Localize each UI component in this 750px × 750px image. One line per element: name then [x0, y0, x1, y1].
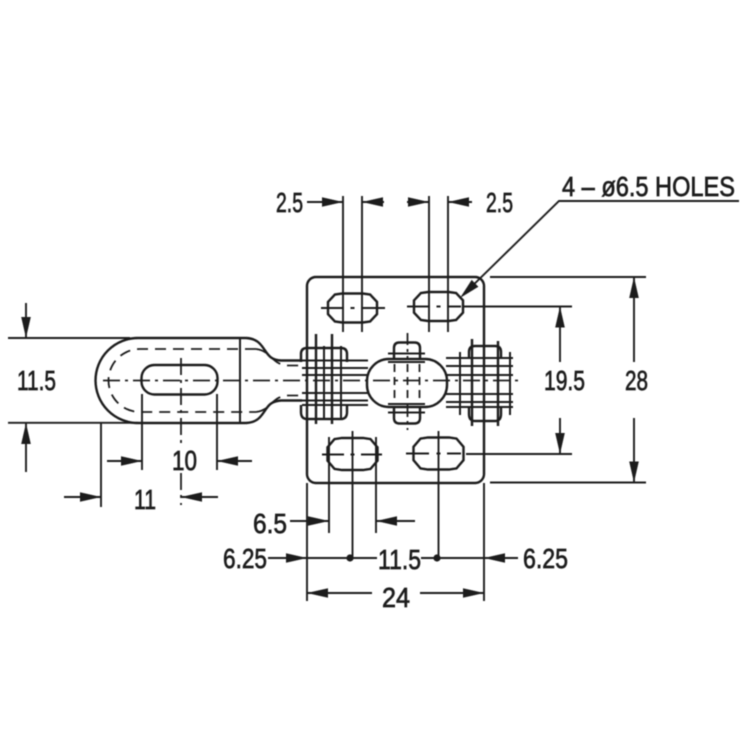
extension lines 2.5 left pair [343, 196, 362, 332]
svg-text:24: 24 [382, 582, 410, 613]
svg-text:11: 11 [134, 484, 156, 515]
pivot boss inner dashed lines [395, 364, 420, 402]
svg-text:6.25: 6.25 [523, 543, 568, 574]
clamp arm inner dashed outline [109, 349, 257, 412]
dimension 2.5 right [407, 187, 513, 218]
svg-text:2.5: 2.5 [276, 187, 303, 218]
clamp arm slot [142, 365, 218, 395]
right hinge bracket top tab [469, 346, 501, 358]
hole top-right [407, 292, 463, 321]
extension lines 2.5 right pair [429, 196, 448, 332]
dimension 19.5 vertical [464, 307, 585, 455]
left hinge bracket top tab [301, 348, 347, 362]
extension lines bottom-left hole tangents [329, 437, 376, 533]
hole bottom-right [406, 431, 464, 558]
linkage bars right of pivot [446, 358, 513, 407]
dimension 28 vertical [490, 277, 648, 483]
dimension 24 [307, 582, 484, 613]
dimension chain 6.25 / 11.5 / 6.25 [223, 543, 568, 575]
pivot top tab [394, 343, 420, 360]
extension lines plate edges bottom [307, 483, 484, 601]
hole bottom-left [322, 431, 382, 558]
svg-text:28: 28 [625, 365, 648, 396]
dimension 10 [107, 445, 252, 476]
dimension 2.5 left [276, 187, 384, 218]
right hinge bracket bottom tab [469, 407, 501, 421]
dimension 11.5 left vertical [8, 303, 138, 472]
pivot vertical centerline [407, 333, 409, 430]
extension lines slot [142, 394, 217, 470]
clamp arm outer outline [96, 338, 246, 423]
svg-text:4 – ø6.5 HOLES: 4 – ø6.5 HOLES [562, 171, 735, 202]
label 4 - dia6.5 HOLES with leader [460, 171, 739, 298]
left hinge rivet pins [316, 334, 332, 424]
linkage bars left of pivot [281, 361, 368, 406]
svg-text:11.5: 11.5 [17, 365, 56, 396]
extension line arm inner left [100, 423, 102, 507]
dimension 6.5 [253, 508, 415, 539]
svg-text:10: 10 [172, 445, 197, 476]
svg-text:6.5: 6.5 [253, 508, 287, 539]
clamp arm neck S-curves [246, 338, 302, 361]
dimension 11 [64, 484, 218, 515]
right hinge rivet pins [472, 339, 498, 426]
slot vertical centerline [180, 358, 182, 505]
svg-text:6.25: 6.25 [223, 543, 267, 574]
clamp arm bend line [239, 338, 241, 423]
left hinge bracket bottom tab [301, 405, 347, 419]
pivot boss [367, 359, 447, 407]
svg-text:19.5: 19.5 [544, 365, 585, 396]
hole top-left [321, 294, 385, 323]
pivot bottom tab [394, 407, 420, 424]
svg-text:11.5: 11.5 [378, 544, 421, 575]
arm horizontal centerline [103, 380, 518, 382]
base plate outline [307, 277, 484, 483]
svg-text:2.5: 2.5 [486, 187, 513, 218]
